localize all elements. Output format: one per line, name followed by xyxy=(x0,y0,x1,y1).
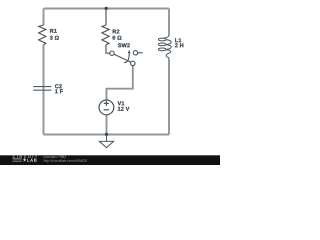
footer logo stripes xyxy=(13,159,22,162)
wire right branch lower (L1 bottom to corner) xyxy=(168,58,170,134)
wire V1 bottom to bottom rail xyxy=(106,115,108,135)
label R1 xyxy=(50,29,57,33)
switch common terminal xyxy=(131,61,135,65)
node junction top (middle branch / top rail) xyxy=(105,7,108,10)
footer logo CIRCUIT xyxy=(13,155,38,158)
footer logo bolt xyxy=(23,158,27,163)
coil right arc 1 xyxy=(166,40,171,45)
wire left branch R1 bottom through C2 to bottom rail xyxy=(43,45,45,135)
label V1 xyxy=(118,101,125,105)
voltage source V1 xyxy=(99,100,114,115)
ground xyxy=(99,135,113,148)
wire middle branch top (node to R2 top) xyxy=(105,9,107,26)
switch left throw terminal xyxy=(110,51,114,55)
coil turn ellipse 2 xyxy=(158,43,166,46)
inductor L1 xyxy=(158,35,171,58)
coil turn ellipse 1 xyxy=(158,38,166,41)
coil bottom tail xyxy=(166,50,171,59)
switch actuation arrow curve xyxy=(124,53,129,63)
switch arrowhead xyxy=(128,50,131,54)
coil turn ellipse 3 xyxy=(158,48,166,51)
value 3 ohm xyxy=(50,36,59,40)
switch right throw stub xyxy=(138,52,143,54)
wire R2 bottom to switch left terminal xyxy=(106,45,110,54)
label C2 xyxy=(55,84,62,88)
switch blade xyxy=(114,54,131,62)
wire right branch upper (corner to L1 top) xyxy=(168,9,170,36)
value 1 F xyxy=(55,89,63,93)
footer bar xyxy=(0,155,220,165)
footer text line 1 xyxy=(44,155,66,158)
capacitor C2 xyxy=(33,87,51,91)
wire top from left corner to right corner xyxy=(44,8,170,10)
footer logo LAB xyxy=(27,159,37,162)
coil top hook xyxy=(163,35,169,38)
wire left branch upper (corner to R1 top) xyxy=(43,9,45,26)
minus sign xyxy=(104,109,109,111)
switch right throw terminal xyxy=(133,51,137,55)
footer text line 2 xyxy=(44,159,87,162)
switch SW2 xyxy=(110,51,143,66)
wire bottom from left corner to right corner xyxy=(44,134,170,136)
value 2 H xyxy=(175,43,183,47)
coil right arc 2 xyxy=(166,45,171,50)
value 6 ohm xyxy=(113,36,122,40)
label SW2 xyxy=(118,43,130,47)
plus sign xyxy=(104,101,109,106)
resistor R1 xyxy=(39,25,46,45)
wire switch common down and left to V1 top xyxy=(107,66,133,100)
node junction bottom (ground / bottom rail) xyxy=(105,133,108,136)
value 12 V xyxy=(118,107,129,111)
label L1 xyxy=(175,38,181,42)
resistor R2 xyxy=(102,25,109,45)
label R2 xyxy=(113,29,120,33)
